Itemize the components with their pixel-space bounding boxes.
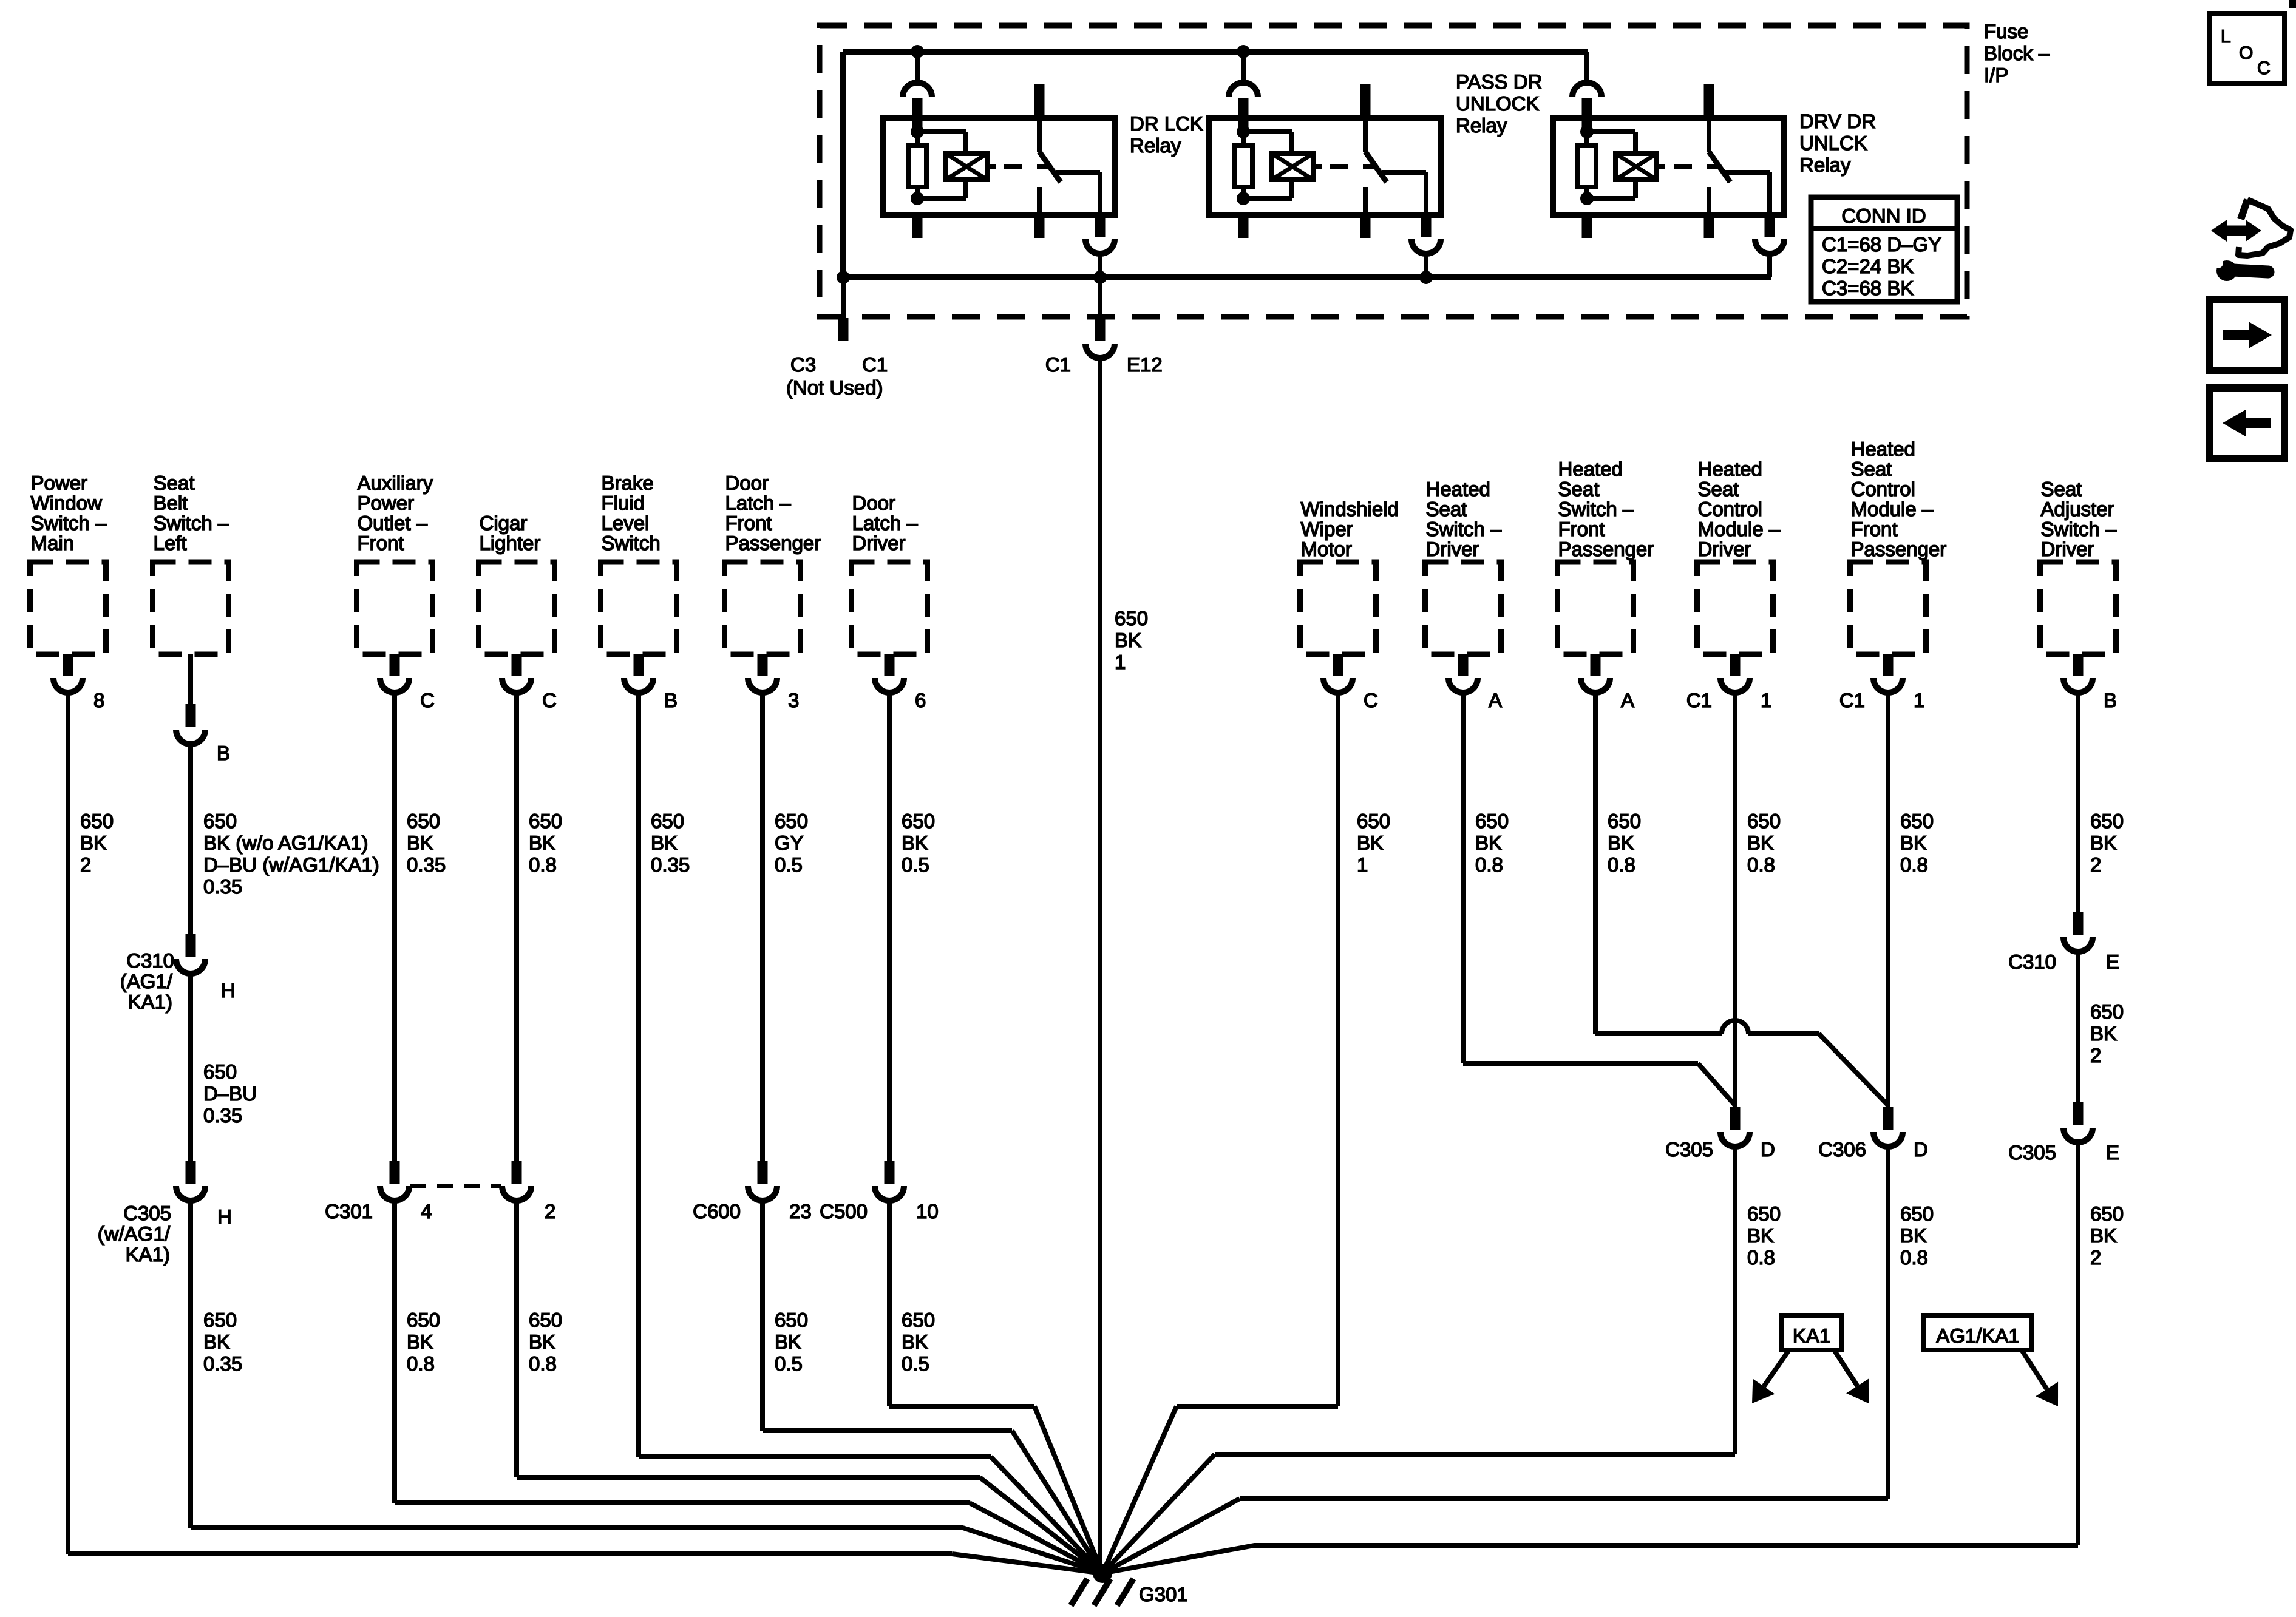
svg-text:2: 2 xyxy=(80,853,91,876)
svg-text:C: C xyxy=(542,689,557,711)
svg-text:Switch –: Switch – xyxy=(2041,518,2117,540)
svg-text:Switch –: Switch – xyxy=(1426,518,1502,540)
svg-text:650: 650 xyxy=(1608,810,1641,832)
svg-text:BK: BK xyxy=(80,832,107,854)
svg-text:650: 650 xyxy=(529,810,562,832)
svg-text:10: 10 xyxy=(916,1200,939,1222)
svg-text:C600: C600 xyxy=(693,1200,741,1222)
svg-text:Front: Front xyxy=(1558,518,1605,540)
svg-text:2: 2 xyxy=(2090,853,2101,876)
svg-text:Switch: Switch xyxy=(602,532,661,554)
svg-text:2: 2 xyxy=(2090,1044,2101,1066)
svg-text:(Not Used): (Not Used) xyxy=(786,376,883,399)
svg-text:BK: BK xyxy=(902,832,928,854)
svg-text:H: H xyxy=(221,979,236,1002)
svg-text:Heated: Heated xyxy=(1851,438,1915,460)
svg-text:C2=24 BK: C2=24 BK xyxy=(1822,255,1914,277)
svg-text:650: 650 xyxy=(1900,1202,1934,1225)
svg-text:0.35: 0.35 xyxy=(407,853,446,876)
svg-text:0.5: 0.5 xyxy=(902,853,929,876)
svg-text:C1: C1 xyxy=(1686,689,1712,711)
svg-text:4: 4 xyxy=(421,1200,432,1222)
svg-text:Seat: Seat xyxy=(1426,498,1467,520)
svg-text:650: 650 xyxy=(775,810,808,832)
svg-text:E: E xyxy=(2106,951,2119,973)
svg-text:Door: Door xyxy=(725,472,769,494)
svg-text:0.8: 0.8 xyxy=(1900,1246,1928,1269)
svg-text:650: 650 xyxy=(2090,810,2124,832)
svg-text:C305: C305 xyxy=(2008,1141,2056,1164)
svg-text:Power: Power xyxy=(358,492,415,514)
svg-text:Seat: Seat xyxy=(2041,478,2082,500)
svg-text:BK (w/o AG1/KA1): BK (w/o AG1/KA1) xyxy=(203,832,368,854)
svg-text:Seat: Seat xyxy=(1851,458,1892,480)
svg-text:1: 1 xyxy=(1761,689,1771,711)
svg-text:Driver: Driver xyxy=(2041,538,2094,560)
svg-text:O: O xyxy=(2239,43,2253,63)
svg-text:Module –: Module – xyxy=(1851,498,1934,520)
svg-text:BK: BK xyxy=(1608,832,1634,854)
svg-text:C305: C305 xyxy=(123,1202,171,1224)
svg-text:Door: Door xyxy=(852,492,896,514)
svg-text:Driver: Driver xyxy=(1698,538,1751,560)
svg-text:0.8: 0.8 xyxy=(1747,853,1775,876)
svg-text:BK: BK xyxy=(407,1331,433,1353)
svg-text:Module –: Module – xyxy=(1698,518,1781,540)
svg-text:BK: BK xyxy=(529,1331,555,1353)
svg-text:Brake: Brake xyxy=(602,472,654,494)
svg-text:BK: BK xyxy=(902,1331,928,1353)
svg-text:BK: BK xyxy=(1747,1224,1774,1247)
svg-text:0.35: 0.35 xyxy=(203,1352,242,1375)
svg-text:3: 3 xyxy=(788,689,799,711)
svg-text:Power: Power xyxy=(31,472,88,494)
svg-text:C: C xyxy=(2257,58,2271,78)
svg-text:B: B xyxy=(2104,689,2117,711)
svg-text:Driver: Driver xyxy=(852,532,906,554)
svg-text:C310: C310 xyxy=(2008,951,2056,973)
svg-text:Switch –: Switch – xyxy=(1558,498,1634,520)
svg-text:(AG1/: (AG1/ xyxy=(120,970,173,992)
svg-text:C306: C306 xyxy=(1818,1138,1866,1161)
svg-text:Heated: Heated xyxy=(1426,478,1490,500)
svg-text:D–BU: D–BU xyxy=(203,1082,257,1105)
svg-text:H: H xyxy=(217,1205,232,1228)
svg-text:Relay: Relay xyxy=(1130,134,1181,157)
svg-text:650: 650 xyxy=(529,1309,562,1331)
svg-text:A: A xyxy=(1489,689,1502,711)
svg-text:650: 650 xyxy=(902,1309,935,1331)
svg-text:BK: BK xyxy=(1747,832,1774,854)
svg-text:650: 650 xyxy=(203,1309,237,1331)
svg-text:Control: Control xyxy=(1851,478,1915,500)
svg-text:Latch –: Latch – xyxy=(852,512,919,534)
svg-text:BK: BK xyxy=(1357,832,1384,854)
svg-text:0.8: 0.8 xyxy=(1900,853,1928,876)
svg-text:C305: C305 xyxy=(1665,1138,1713,1161)
svg-text:0.35: 0.35 xyxy=(203,875,242,898)
svg-text:UNLCK: UNLCK xyxy=(1799,132,1867,154)
svg-text:C: C xyxy=(420,689,435,711)
svg-text:0.35: 0.35 xyxy=(651,853,690,876)
svg-text:C3: C3 xyxy=(790,353,816,376)
svg-text:BK: BK xyxy=(2090,1022,2117,1045)
svg-text:0.8: 0.8 xyxy=(407,1352,435,1375)
svg-text:0.5: 0.5 xyxy=(902,1352,929,1375)
svg-text:650: 650 xyxy=(2090,1202,2124,1225)
svg-text:650: 650 xyxy=(203,1060,237,1083)
svg-text:Passenger: Passenger xyxy=(1851,538,1947,560)
svg-text:Latch –: Latch – xyxy=(725,492,792,514)
svg-text:L: L xyxy=(2221,27,2231,47)
svg-text:BK: BK xyxy=(1115,629,1141,651)
svg-text:KA1): KA1) xyxy=(126,1243,170,1266)
svg-text:650: 650 xyxy=(80,810,114,832)
svg-text:KA1: KA1 xyxy=(1793,1324,1830,1347)
svg-text:0.8: 0.8 xyxy=(529,1352,557,1375)
svg-text:0.35: 0.35 xyxy=(203,1104,242,1127)
svg-text:BK: BK xyxy=(1900,832,1927,854)
svg-text:BK: BK xyxy=(2090,832,2117,854)
svg-text:8: 8 xyxy=(93,689,104,711)
svg-text:Lighter: Lighter xyxy=(480,532,541,554)
svg-text:1: 1 xyxy=(1115,651,1126,673)
svg-text:650: 650 xyxy=(203,810,237,832)
svg-text:D–BU (w/AG1/KA1): D–BU (w/AG1/KA1) xyxy=(203,853,379,876)
svg-text:Cigar: Cigar xyxy=(480,512,528,534)
svg-text:C1: C1 xyxy=(862,353,888,376)
svg-text:Level: Level xyxy=(602,512,650,534)
svg-text:650: 650 xyxy=(1357,810,1390,832)
svg-text:Driver: Driver xyxy=(1426,538,1479,560)
svg-text:PASS DR: PASS DR xyxy=(1456,70,1542,93)
svg-text:BK: BK xyxy=(775,1331,801,1353)
svg-text:2: 2 xyxy=(545,1200,555,1222)
svg-text:I/P: I/P xyxy=(1984,64,2008,86)
svg-text:UNLOCK: UNLOCK xyxy=(1456,92,1540,115)
svg-text:1: 1 xyxy=(1914,689,1924,711)
svg-text:650: 650 xyxy=(1747,810,1781,832)
svg-text:23: 23 xyxy=(789,1200,812,1222)
svg-text:C1: C1 xyxy=(1045,353,1071,376)
svg-text:Fluid: Fluid xyxy=(602,492,645,514)
svg-text:1: 1 xyxy=(1357,853,1368,876)
svg-text:C1=68 D–GY: C1=68 D–GY xyxy=(1822,233,1941,256)
svg-text:0.5: 0.5 xyxy=(775,1352,803,1375)
svg-text:KA1): KA1) xyxy=(128,991,172,1013)
svg-text:C310: C310 xyxy=(126,949,174,972)
svg-text:Auxiliary: Auxiliary xyxy=(358,472,433,494)
svg-text:D: D xyxy=(1914,1138,1928,1161)
svg-text:Adjuster: Adjuster xyxy=(2041,498,2114,520)
svg-text:DRV DR: DRV DR xyxy=(1799,110,1876,132)
svg-text:650: 650 xyxy=(775,1309,808,1331)
svg-text:Window: Window xyxy=(31,492,103,514)
svg-text:Seat: Seat xyxy=(1698,478,1739,500)
svg-text:Relay: Relay xyxy=(1456,114,1507,137)
svg-text:E12: E12 xyxy=(1127,353,1163,376)
svg-text:BK: BK xyxy=(1475,832,1502,854)
svg-text:BK: BK xyxy=(203,1331,230,1353)
svg-text:650: 650 xyxy=(2090,1000,2124,1023)
svg-text:Front: Front xyxy=(725,512,772,534)
svg-text:Switch –: Switch – xyxy=(154,512,229,534)
svg-text:C301: C301 xyxy=(325,1200,373,1222)
svg-text:Control: Control xyxy=(1698,498,1762,520)
svg-text:Switch –: Switch – xyxy=(31,512,107,534)
svg-text:BK: BK xyxy=(529,832,555,854)
svg-text:0.8: 0.8 xyxy=(1475,853,1503,876)
svg-text:Wiper: Wiper xyxy=(1301,518,1353,540)
svg-text:Front: Front xyxy=(1851,518,1898,540)
svg-text:Outlet –: Outlet – xyxy=(358,512,428,534)
svg-text:Heated: Heated xyxy=(1698,458,1762,480)
svg-text:650: 650 xyxy=(407,810,440,832)
svg-text:Heated: Heated xyxy=(1558,458,1623,480)
svg-text:D: D xyxy=(1761,1138,1775,1161)
svg-text:650: 650 xyxy=(902,810,935,832)
svg-text:Left: Left xyxy=(154,532,187,554)
svg-text:650: 650 xyxy=(1747,1202,1781,1225)
svg-text:A: A xyxy=(1621,689,1634,711)
svg-text:BK: BK xyxy=(407,832,433,854)
svg-text:E: E xyxy=(2106,1141,2119,1164)
svg-text:GY: GY xyxy=(775,832,804,854)
svg-text:Passenger: Passenger xyxy=(725,532,821,554)
svg-text:0.8: 0.8 xyxy=(1608,853,1635,876)
svg-text:B: B xyxy=(664,689,678,711)
svg-text:2: 2 xyxy=(2090,1246,2101,1269)
svg-text:Block –: Block – xyxy=(1984,42,2050,64)
svg-text:Front: Front xyxy=(358,532,404,554)
svg-text:Seat: Seat xyxy=(154,472,195,494)
svg-text:Belt: Belt xyxy=(154,492,188,514)
svg-text:AG1/KA1: AG1/KA1 xyxy=(1936,1324,2020,1347)
svg-text:Motor: Motor xyxy=(1301,538,1352,560)
svg-text:BK: BK xyxy=(2090,1224,2117,1247)
svg-text:C3=68 BK: C3=68 BK xyxy=(1822,277,1914,299)
svg-text:Relay: Relay xyxy=(1799,154,1851,176)
svg-text:650: 650 xyxy=(407,1309,440,1331)
svg-text:0.8: 0.8 xyxy=(529,853,557,876)
svg-text:650: 650 xyxy=(651,810,684,832)
svg-text:650: 650 xyxy=(1900,810,1934,832)
svg-text:(w/AG1/: (w/AG1/ xyxy=(98,1222,171,1245)
svg-text:650: 650 xyxy=(1475,810,1509,832)
svg-text:C1: C1 xyxy=(1839,689,1865,711)
svg-text:Passenger: Passenger xyxy=(1558,538,1654,560)
svg-text:CONN ID: CONN ID xyxy=(1841,205,1926,227)
svg-text:0.8: 0.8 xyxy=(1747,1246,1775,1269)
svg-text:BK: BK xyxy=(651,832,678,854)
svg-text:0.5: 0.5 xyxy=(775,853,803,876)
svg-text:650: 650 xyxy=(1115,607,1148,629)
svg-text:Seat: Seat xyxy=(1558,478,1600,500)
svg-text:G301: G301 xyxy=(1139,1583,1188,1605)
svg-text:C: C xyxy=(1364,689,1378,711)
svg-text:Windshield: Windshield xyxy=(1301,498,1399,520)
svg-text:C500: C500 xyxy=(820,1200,868,1222)
svg-text:DR LCK: DR LCK xyxy=(1130,112,1203,135)
svg-text:Main: Main xyxy=(31,532,75,554)
svg-text:6: 6 xyxy=(915,689,926,711)
svg-text:B: B xyxy=(217,742,230,764)
svg-text:BK: BK xyxy=(1900,1224,1927,1247)
svg-text:Fuse: Fuse xyxy=(1984,20,2028,42)
